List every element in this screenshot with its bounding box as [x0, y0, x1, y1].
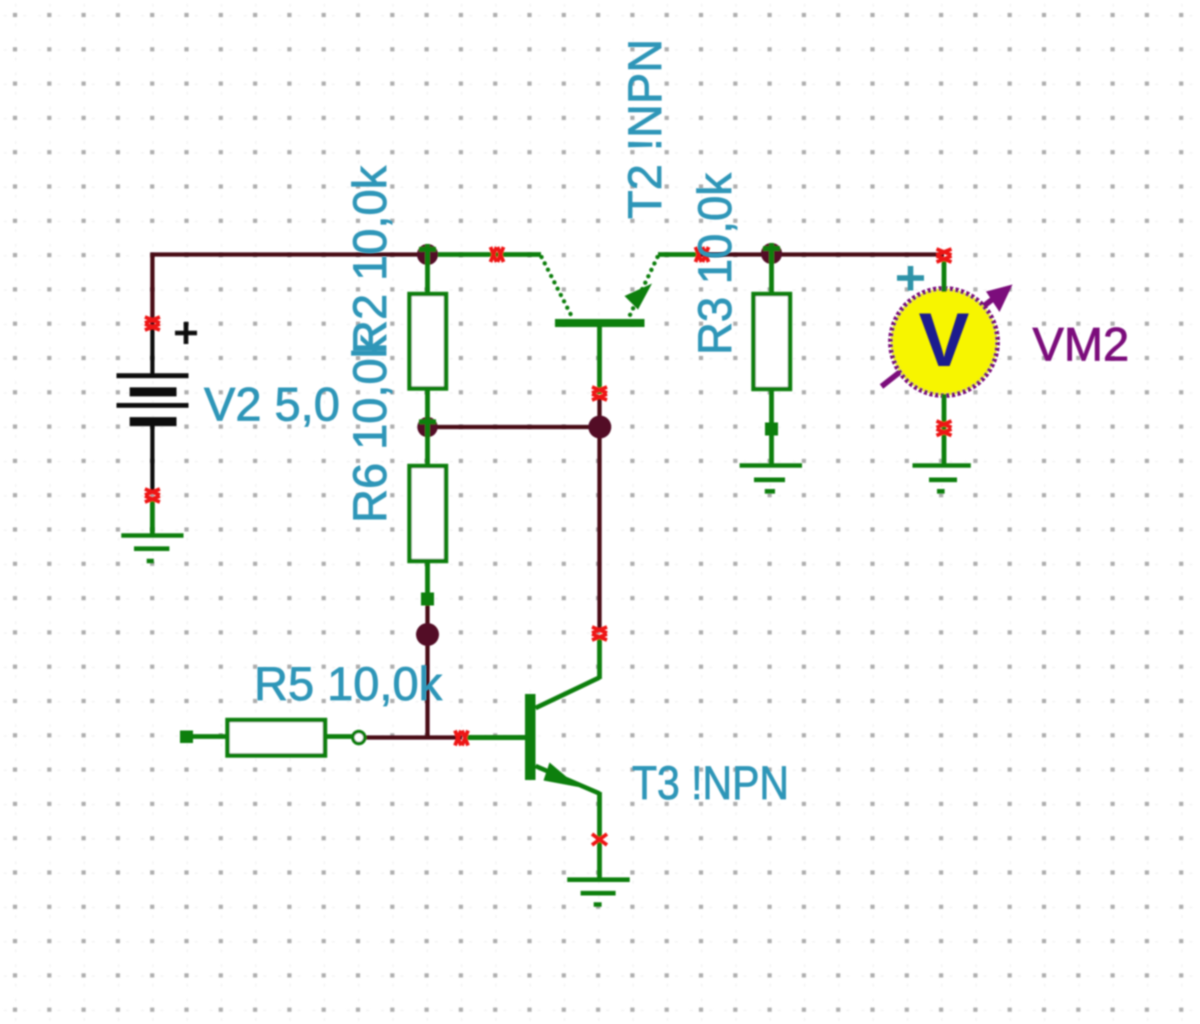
- battery V2 plus sign: [175, 322, 197, 344]
- node D green cross: [419, 417, 436, 437]
- wire battery to ground: [150, 497, 155, 536]
- red connection marks T2 base: [592, 387, 607, 400]
- transistor T2 emitter diagonal: [630, 257, 658, 316]
- lead node A to R2: [425, 244, 430, 294]
- red connection marks wire at T2 collector: [491, 247, 504, 262]
- lead R3 to pin square: [769, 389, 774, 423]
- wire node A to T2 collector: [428, 252, 542, 257]
- svg-text:R6 10,0k: R6 10,0k: [343, 334, 396, 523]
- transistor T3 emitter arrow: [544, 763, 579, 788]
- resistor R3: [754, 294, 791, 389]
- voltmeter VM2 arrowhead: [986, 285, 1013, 313]
- resistor R6: [410, 466, 447, 561]
- red connection marks voltmeter top: [937, 249, 952, 262]
- svg-text:T2 !NPN: T2 !NPN: [618, 39, 671, 219]
- ground of R3: [740, 466, 802, 492]
- svg-text:V2 5,0: V2 5,0: [204, 378, 340, 431]
- battery V2 plate thick 1: [130, 387, 177, 396]
- node B green cross: [763, 243, 780, 264]
- transistor T3 base bar: [525, 694, 536, 780]
- lead R2 to node D: [425, 389, 430, 438]
- wire R6 output down through node E to R5 row: [425, 602, 429, 738]
- node C junction dot: [588, 416, 611, 439]
- lead node D to R6: [425, 427, 430, 466]
- voltmeter VM2 top lead: [942, 258, 947, 292]
- voltmeter VM2 arrow line: [882, 291, 1004, 387]
- transistor T2 emitter arrow: [625, 284, 653, 310]
- lead node B to R3: [769, 243, 774, 294]
- voltmeter VM2 body: [891, 289, 998, 396]
- transistor T3 emitter lead: [597, 792, 602, 880]
- battery V2 plate long top: [117, 373, 189, 378]
- battery V2 bottom lead: [150, 425, 154, 494]
- wire R3 to ground: [769, 435, 774, 466]
- lead R5 right: [325, 734, 353, 739]
- red connection mark T3 emitter: [592, 834, 607, 845]
- red connection marks R5 to T3 base: [455, 731, 468, 746]
- node A green cross: [419, 244, 436, 265]
- transistor T2 collector diagonal: [542, 257, 572, 316]
- svg-text:T3 !NPN: T3 !NPN: [632, 756, 789, 809]
- wire top rail V2 to node A: [152, 255, 427, 332]
- ground of T3: [567, 880, 630, 905]
- transistor T3 collector diagonal: [536, 678, 600, 709]
- label VM2 plus polarity: [897, 266, 924, 291]
- lead R5 left: [191, 734, 228, 739]
- wire R5 output to T3 base: [363, 735, 462, 739]
- R5 output open circle: [353, 732, 365, 744]
- ground of VM2: [913, 466, 971, 492]
- ground of V2: [121, 536, 183, 562]
- wire T2 emitter to node B: [658, 252, 699, 257]
- pin square R3 output: [765, 423, 778, 436]
- red connection mark voltmeter bottom: [937, 421, 952, 436]
- red connection marks battery bottom: [145, 489, 160, 502]
- node B junction dot: [761, 243, 782, 264]
- transistor T2 base lead: [597, 327, 602, 394]
- transistor T3 collector lead: [597, 639, 602, 679]
- wire node D horizontal to node C: [428, 425, 601, 429]
- battery V2 plate thick 2: [130, 417, 177, 426]
- red connection marks T3 collector: [592, 627, 607, 640]
- transistor T3 emitter diagonal: [536, 766, 600, 794]
- red connection marks wire at T2 emitter: [696, 247, 709, 262]
- transistor T2 base bar: [555, 319, 645, 327]
- wire T2 base down through node C to T3 collector: [597, 396, 601, 629]
- red connection marks battery top: [145, 317, 160, 330]
- battery V2 plate long 2: [117, 403, 189, 408]
- voltmeter VM2 bottom lead: [942, 394, 947, 466]
- pin square R6 output: [421, 593, 434, 606]
- node D junction dot: [417, 417, 437, 437]
- svg-text:R2 10,0k: R2 10,0k: [343, 165, 396, 354]
- battery V2 top lead: [150, 325, 154, 374]
- node E junction dot: [416, 623, 439, 646]
- node A junction dot: [417, 244, 438, 265]
- wire top rail node B to voltmeter: [699, 252, 944, 256]
- resistor R5: [228, 720, 326, 756]
- svg-text:V: V: [919, 298, 970, 383]
- svg-text:R3 10,0k: R3 10,0k: [688, 173, 741, 355]
- resistor R2: [410, 294, 447, 389]
- lead R6 to pin square: [425, 561, 430, 598]
- svg-text:VM2: VM2: [1033, 318, 1130, 371]
- svg-text:R5 10,0k: R5 10,0k: [254, 657, 443, 710]
- wire to T3 base: [465, 735, 525, 740]
- resistor R5 pin square: [180, 731, 193, 744]
